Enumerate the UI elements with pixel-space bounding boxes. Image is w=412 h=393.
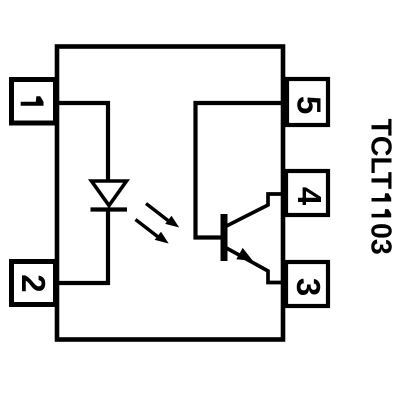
transistor Q1 emitter wire to pin 3 bbox=[226, 248, 287, 283]
pin 1 box bbox=[12, 80, 56, 124]
svg-text:3: 3 bbox=[290, 278, 327, 296]
pin 5 box bbox=[287, 79, 328, 125]
svg-text:03: 03 bbox=[365, 223, 397, 255]
transistor Q1 emitter arrowhead bbox=[236, 248, 253, 261]
svg-text:2: 2 bbox=[15, 274, 52, 292]
pin 4 box bbox=[286, 171, 328, 215]
svg-text:TCLT: TCLT bbox=[365, 119, 397, 190]
transistor Q1 base bar bbox=[221, 214, 228, 261]
light emission arrow (lower) bbox=[136, 220, 169, 244]
wire: pin 1 to LED anode bbox=[57, 103, 108, 181]
wire: LED cathode to pin 2 bbox=[57, 210, 108, 284]
light emission arrow (upper) bbox=[146, 204, 179, 228]
IC body U1 outline bbox=[57, 47, 283, 340]
svg-text:5: 5 bbox=[290, 96, 327, 114]
pin 2 box bbox=[12, 262, 56, 305]
LED D1 anode triangle bbox=[92, 181, 127, 206]
part number text TCLT1103 bbox=[365, 119, 397, 255]
svg-text:4: 4 bbox=[291, 187, 328, 206]
pin 1 number label "1" (custom glyph) bbox=[21, 96, 44, 106]
transistor Q1 collector wire to pin 4 bbox=[226, 194, 287, 227]
wire: pin 5 to transistor base bbox=[196, 103, 284, 238]
LED D1 cathode bar bbox=[91, 207, 128, 211]
pin 3 box bbox=[286, 262, 328, 306]
